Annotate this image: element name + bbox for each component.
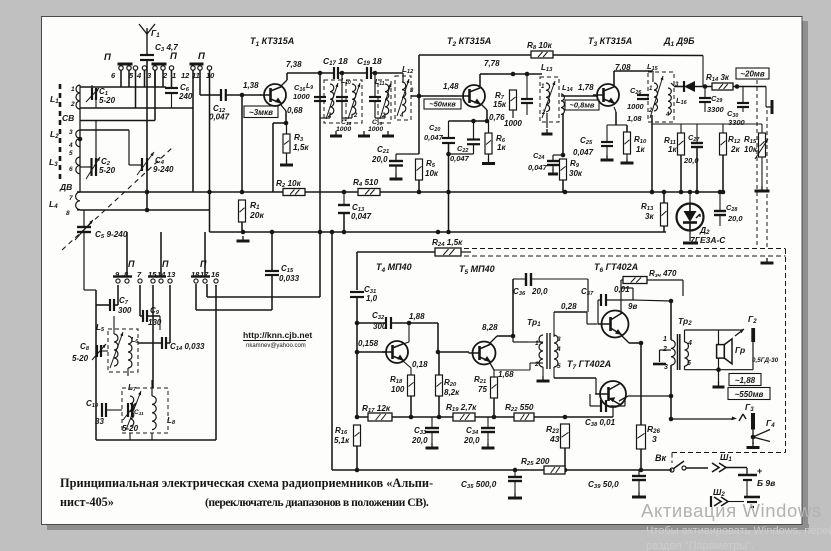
- coil L2: [76, 130, 80, 147]
- resistor R5: [416, 159, 423, 180]
- capacitor C37: [601, 294, 606, 306]
- wire: [606, 299, 633, 301]
- wire: [702, 56, 704, 87]
- svg-text:3к: 3к: [645, 212, 654, 221]
- wire: [638, 480, 640, 492]
- ground: [508, 493, 522, 498]
- node: [669, 299, 674, 304]
- node: [446, 190, 451, 195]
- svg-text:Принципиальная электрическая: Принципиальная электрическая схема радио…: [60, 476, 433, 490]
- label L2: [50, 129, 59, 140]
- pin 8: [124, 270, 129, 279]
- svg-text:R14 3к: R14 3к: [706, 73, 730, 83]
- svg-text:5-20: 5-20: [72, 354, 89, 363]
- wire: [526, 74, 528, 99]
- ground: [358, 131, 370, 136]
- label C31: [364, 285, 376, 295]
- capacitor C4: [142, 158, 147, 171]
- wire: [162, 70, 164, 87]
- wire: [129, 433, 131, 440]
- label Тр1: [527, 317, 541, 328]
- ground: [237, 236, 250, 241]
- svg-text:2: 2: [534, 361, 539, 368]
- antenna Г1: [139, 24, 155, 55]
- node: [355, 321, 360, 326]
- wire: [95, 121, 97, 159]
- svg-text:4: 4: [399, 113, 404, 119]
- resistor Rзч: [623, 277, 647, 284]
- wire: [159, 316, 161, 330]
- ground battery: [744, 497, 760, 507]
- label C32: [372, 311, 385, 321]
- wire: [685, 369, 754, 371]
- wire: [629, 342, 641, 344]
- label 20,0: [727, 214, 743, 223]
- svg-text:8,2к: 8,2к: [444, 388, 460, 397]
- wire: [514, 481, 516, 493]
- svg-text:3300: 3300: [728, 118, 746, 127]
- ground: [542, 129, 553, 134]
- label L10: [341, 78, 351, 86]
- wire: [614, 107, 616, 112]
- wire: [464, 255, 786, 257]
- pin 3: [557, 336, 561, 343]
- svg-text:0,76: 0,76: [489, 113, 505, 122]
- node: [695, 190, 700, 195]
- pin 1: [649, 86, 653, 92]
- wire: [210, 231, 667, 233]
- svg-text:9в: 9в: [628, 302, 637, 311]
- label 3300: [728, 118, 746, 127]
- coil L4: [76, 192, 80, 210]
- wire: [473, 144, 475, 154]
- voltage 1,38: [243, 81, 259, 90]
- node: [270, 230, 275, 235]
- contact bar: [118, 63, 133, 66]
- label 300: [373, 322, 387, 331]
- node: [355, 468, 360, 473]
- wire: [271, 275, 273, 310]
- ground: [537, 376, 550, 381]
- label L5: [96, 323, 105, 333]
- svg-text:20,0: 20,0: [463, 436, 480, 445]
- resistor R3: [283, 134, 290, 153]
- label 1000: [504, 119, 522, 128]
- wire: [663, 192, 665, 203]
- wire: [554, 311, 587, 313]
- label Д1 Д9Б: [663, 36, 695, 48]
- svg-text:0,047: 0,047: [424, 133, 444, 142]
- svg-text:СВ: СВ: [62, 113, 74, 123]
- switch contact 205: [200, 277, 210, 284]
- wire: [117, 285, 119, 305]
- label R12: [728, 135, 741, 145]
- wire: [672, 452, 786, 454]
- node: [735, 84, 740, 89]
- svg-text:2: 2: [70, 101, 75, 108]
- label 3к: [645, 212, 654, 221]
- label Тр2: [678, 316, 692, 327]
- svg-text:10: 10: [206, 71, 215, 80]
- svg-text:2: 2: [541, 110, 546, 116]
- node: [241, 230, 246, 235]
- wire: [329, 114, 331, 118]
- wire: [80, 120, 155, 122]
- wire: [146, 60, 148, 158]
- capacitor C5: [77, 227, 91, 232]
- svg-text:20,0: 20,0: [371, 155, 388, 164]
- svg-text:8,28: 8,28: [482, 323, 498, 332]
- svg-text:43: 43: [549, 434, 560, 444]
- wire: [704, 102, 706, 112]
- switch Вк: [670, 461, 686, 472]
- capacitor C18: [336, 97, 348, 101]
- switch contact 140: [138, 279, 142, 283]
- tuning arrow: [542, 81, 555, 118]
- wire: [663, 226, 665, 232]
- wire: [114, 304, 118, 306]
- label C18: [341, 119, 352, 127]
- wire: [431, 417, 433, 428]
- svg-text:10к: 10к: [425, 169, 439, 178]
- wire: [619, 396, 628, 401]
- node: [662, 190, 667, 195]
- wire: [448, 121, 450, 138]
- label C12: [213, 104, 226, 114]
- svg-text:П: П: [162, 259, 169, 269]
- wire: [553, 154, 563, 156]
- label L14: [562, 83, 573, 93]
- capacitor C27 electrolytic: [691, 143, 703, 147]
- wire: [396, 153, 419, 155]
- ground: [548, 169, 558, 174]
- wire: [512, 336, 514, 342]
- wire: [486, 110, 488, 121]
- wire: [206, 284, 208, 297]
- voltage 7,78: [484, 59, 500, 68]
- node: [417, 190, 422, 195]
- node: [718, 190, 723, 195]
- label C8: [80, 342, 90, 352]
- wire: [616, 124, 627, 126]
- svg-text:3: 3: [557, 336, 561, 343]
- wire: [552, 155, 554, 161]
- wire: [120, 70, 122, 87]
- coil L1: [76, 85, 80, 109]
- label R21: [474, 375, 486, 385]
- node: [355, 415, 360, 420]
- label R16: [335, 426, 348, 436]
- wire: [562, 180, 564, 192]
- ground rotated: [766, 100, 772, 114]
- coil L3: [76, 157, 80, 174]
- wire: [356, 297, 358, 417]
- wire: [192, 70, 194, 192]
- wire: [114, 315, 118, 317]
- capacitor C25: [601, 142, 613, 146]
- wire: [685, 329, 740, 331]
- label 15к: [493, 100, 507, 109]
- label C2: [101, 157, 111, 167]
- label 0,047: [450, 154, 470, 163]
- wire: [513, 341, 528, 343]
- transistor T4: [382, 341, 408, 363]
- contact bar: [152, 63, 167, 66]
- svg-text:20,0: 20,0: [727, 214, 743, 223]
- wire: [671, 453, 673, 464]
- ground: [330, 131, 342, 136]
- wire: [113, 316, 115, 334]
- svg-text:Вк: Вк: [655, 453, 666, 463]
- boxed level ~20мв: [736, 68, 769, 79]
- pot arrow R15: [755, 139, 768, 159]
- wire: [553, 54, 703, 57]
- label R15: [744, 135, 757, 145]
- wire: [587, 279, 589, 312]
- svg-text:0,18: 0,18: [412, 360, 428, 369]
- transformer can L15: [648, 72, 674, 122]
- wire: [140, 315, 143, 317]
- svg-text:R4 510: R4 510: [353, 178, 379, 188]
- pin 2: [162, 71, 168, 80]
- label C33: [414, 426, 427, 436]
- svg-text:C5 9-240: C5 9-240: [95, 230, 128, 240]
- svg-text:~550мв: ~550мв: [735, 390, 764, 399]
- wire: [671, 418, 733, 420]
- svg-text:1,5к: 1,5к: [293, 143, 309, 152]
- pin 13: [167, 270, 176, 279]
- wire: [659, 350, 661, 362]
- node: [525, 72, 530, 77]
- wire: [553, 312, 555, 337]
- svg-text:20,0: 20,0: [411, 436, 428, 445]
- wire: [391, 322, 409, 324]
- resistor R17: [368, 413, 392, 421]
- wire: [684, 366, 686, 370]
- node: [563, 190, 568, 195]
- svg-text:300: 300: [118, 306, 132, 315]
- voltage 1,88: [409, 312, 425, 321]
- wire: [612, 407, 614, 417]
- svg-text:~3мкв: ~3мкв: [249, 108, 273, 117]
- label 33: [95, 417, 104, 426]
- wire: [620, 280, 622, 288]
- voltage 7,38: [286, 60, 302, 69]
- wire: [151, 433, 153, 440]
- wire: [589, 394, 591, 406]
- wire: [395, 154, 397, 161]
- wire: [621, 279, 623, 281]
- svg-text:0,047: 0,047: [209, 113, 230, 122]
- resistor R21: [491, 377, 498, 398]
- capacitor C29: [699, 98, 711, 102]
- node: [145, 190, 150, 195]
- svg-text:C14 0,033: C14 0,033: [170, 342, 205, 352]
- wire: [742, 107, 744, 112]
- wire: [241, 222, 243, 232]
- svg-text:R8 10к: R8 10к: [527, 41, 553, 51]
- wire: [680, 155, 682, 192]
- coil L14: [561, 94, 564, 114]
- wire: [493, 398, 495, 417]
- label R18: [390, 375, 403, 385]
- svg-text:8: 8: [66, 210, 70, 217]
- wire: [640, 449, 642, 470]
- wire: [487, 417, 489, 428]
- resistor R16: [354, 425, 361, 446]
- resistor R2: [283, 189, 305, 196]
- wire: [196, 309, 272, 311]
- switch contact 118: [113, 277, 123, 284]
- label 75: [478, 385, 487, 394]
- switch contact: [127, 66, 131, 70]
- label Rзч 470: [649, 269, 677, 279]
- node: [207, 190, 212, 195]
- wire: [371, 72, 403, 74]
- svg-text:5-20: 5-20: [99, 166, 116, 175]
- wire: [660, 349, 672, 351]
- capacitor C14: [162, 337, 166, 349]
- svg-text:R19 2,7к: R19 2,7к: [446, 403, 477, 413]
- wire: [640, 343, 642, 425]
- pin 4: [399, 113, 404, 119]
- capacitor C23: [521, 99, 533, 103]
- page shadow right: [802, 21, 808, 530]
- coil L9: [330, 84, 334, 114]
- wire: [765, 87, 767, 108]
- svg-text:0,033: 0,033: [279, 274, 300, 283]
- label R4 510: [353, 178, 379, 188]
- node: [318, 230, 323, 235]
- tuning arrow: [110, 332, 123, 368]
- svg-text:0,047: 0,047: [573, 148, 594, 157]
- svg-text:Д1 Д9Б: Д1 Д9Б: [663, 36, 695, 48]
- svg-text:C19 18: C19 18: [357, 56, 382, 67]
- svg-text:1,08: 1,08: [627, 114, 642, 123]
- svg-text:1000: 1000: [293, 92, 311, 101]
- wire: [207, 296, 320, 298]
- wire: [546, 113, 548, 128]
- svg-text:4: 4: [687, 340, 692, 347]
- wire: [652, 71, 654, 82]
- label C38 0,01: [585, 418, 616, 428]
- node: [716, 367, 721, 372]
- label C27: [688, 133, 700, 143]
- label R1: [250, 200, 260, 211]
- wire: [200, 94, 210, 96]
- pin 5: [129, 71, 134, 80]
- ground: [653, 363, 666, 366]
- label T6 ГТ402А: [594, 262, 638, 274]
- svg-text:Б 9в: Б 9в: [757, 478, 775, 488]
- svg-text:0,158: 0,158: [358, 339, 379, 348]
- svg-text:1: 1: [172, 71, 176, 80]
- label Ш2: [713, 487, 725, 498]
- wire: [614, 70, 653, 72]
- label L11: [375, 79, 385, 87]
- tuning arrow: [326, 83, 338, 119]
- wire: [512, 279, 514, 336]
- resistor R23: [561, 424, 570, 448]
- wire: [514, 470, 516, 477]
- svg-text:0,047: 0,047: [351, 212, 372, 221]
- svg-text:1,48: 1,48: [443, 82, 459, 91]
- svg-text:7,78: 7,78: [484, 59, 500, 68]
- wire: [785, 249, 787, 453]
- secondary coil Тр1: [554, 335, 558, 367]
- node: [721, 190, 726, 195]
- svg-text:R24 1,5к: R24 1,5к: [432, 238, 463, 248]
- label Б 9в: [757, 478, 775, 488]
- wire: [494, 369, 530, 371]
- wire: [449, 120, 488, 122]
- capacitor C2: [92, 158, 97, 176]
- label R7: [495, 91, 505, 101]
- node: [679, 190, 684, 195]
- svg-text:5: 5: [687, 360, 691, 367]
- svg-text:5-20: 5-20: [99, 96, 116, 105]
- label C20: [429, 123, 440, 133]
- diode D1: [684, 81, 695, 92]
- wire: [488, 73, 542, 75]
- wire: [488, 154, 490, 159]
- resistor R8: [531, 51, 553, 58]
- wire: [598, 299, 601, 301]
- wire: [374, 101, 376, 118]
- label C30: [727, 109, 738, 119]
- node: [688, 190, 693, 195]
- label C9: [150, 306, 160, 316]
- coil L15: [654, 83, 658, 111]
- capacitor C1: [92, 88, 96, 100]
- svg-text:~50мкв: ~50мкв: [429, 100, 456, 109]
- node: [284, 121, 289, 126]
- node: [417, 94, 422, 99]
- wire: [215, 285, 217, 440]
- label L16: [676, 96, 688, 106]
- jack Г3: [732, 413, 756, 430]
- tuning arrow: [348, 83, 360, 119]
- wire: [633, 300, 671, 301]
- wire: [169, 285, 171, 343]
- svg-text:5-20: 5-20: [122, 424, 139, 433]
- label 20,0: [531, 287, 548, 296]
- label 43: [549, 434, 560, 444]
- node: [437, 415, 442, 420]
- label C15: [281, 264, 294, 274]
- label 1000: [627, 102, 645, 111]
- label L4: [49, 199, 58, 210]
- svg-text:3: 3: [652, 434, 657, 444]
- ground: [713, 382, 725, 387]
- wire: [431, 432, 433, 443]
- node: [561, 153, 566, 158]
- capacitor C24: [547, 161, 559, 165]
- wire: [554, 377, 596, 379]
- node: [471, 119, 476, 124]
- ground: [482, 443, 495, 448]
- caption line 1: [60, 476, 433, 490]
- label П: [170, 51, 177, 62]
- resistor R11: [678, 133, 685, 155]
- svg-text:5: 5: [69, 150, 73, 157]
- svg-text:~1,88: ~1,88: [735, 376, 756, 385]
- label 1к: [636, 145, 645, 154]
- label 100: [391, 385, 405, 394]
- label R13: [641, 202, 654, 212]
- label R17 12к: [362, 404, 391, 414]
- svg-text:1000: 1000: [504, 119, 522, 128]
